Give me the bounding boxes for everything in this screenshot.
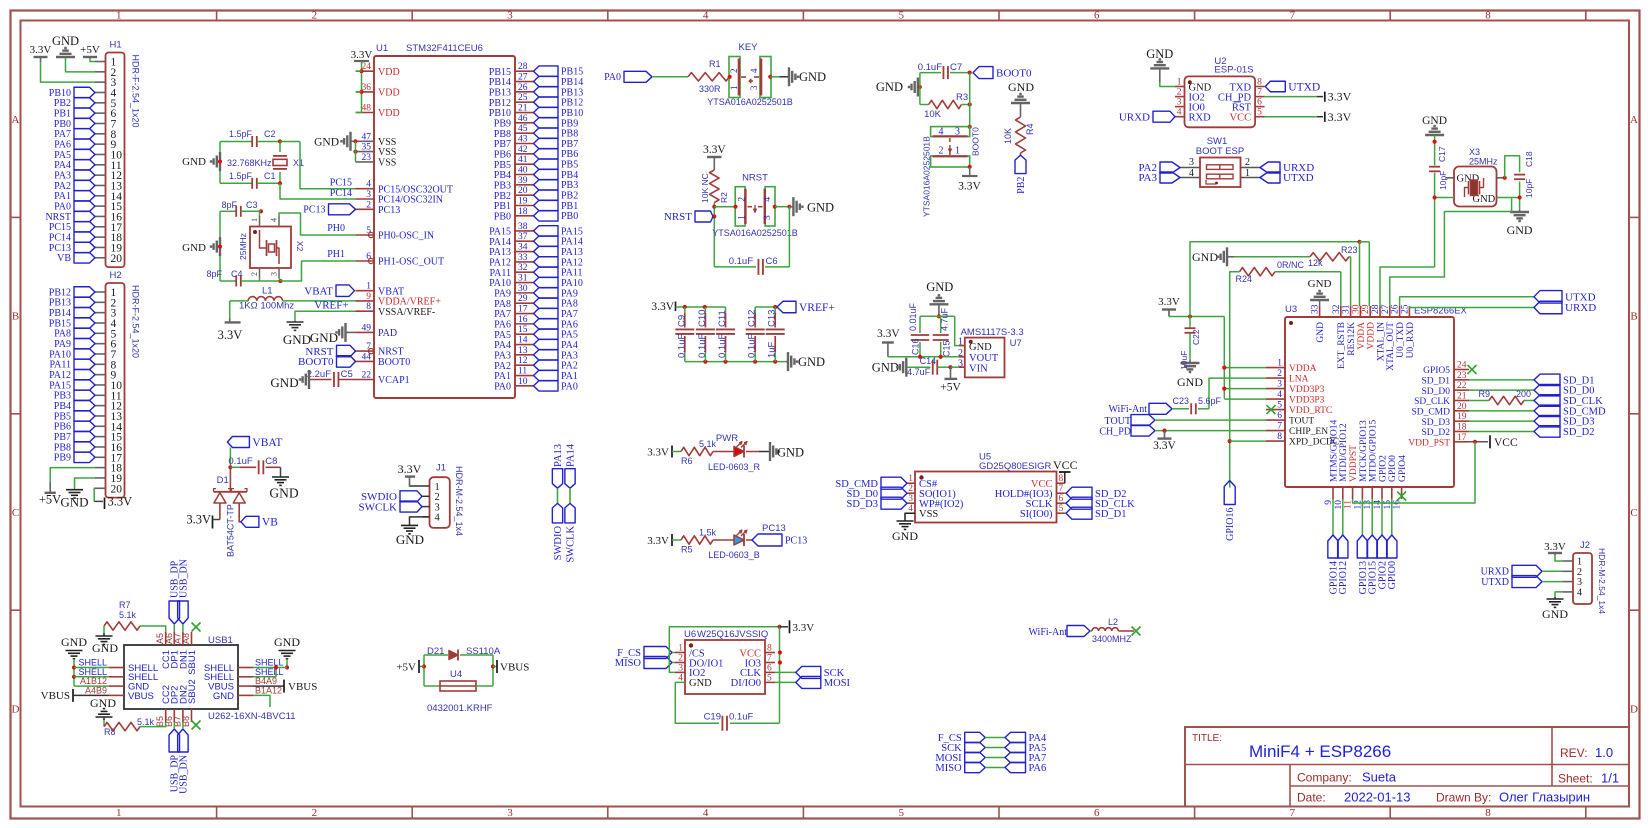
- svg-text:4.7uF: 4.7uF: [907, 367, 931, 377]
- svg-text:GND: GND: [52, 34, 79, 48]
- svg-text:GND: GND: [969, 342, 992, 353]
- svg-text:3: 3: [678, 663, 683, 673]
- svg-text:4: 4: [435, 513, 441, 524]
- svg-text:0.1uF: 0.1uF: [228, 456, 252, 467]
- svg-text:+5V: +5V: [39, 493, 61, 507]
- svg-text:4: 4: [763, 197, 773, 202]
- svg-text:PC13: PC13: [785, 535, 807, 546]
- svg-text:MISO: MISO: [935, 763, 962, 774]
- svg-text:6: 6: [1094, 807, 1100, 819]
- svg-text:25MHz: 25MHz: [238, 233, 248, 260]
- svg-text:BOOT ESP: BOOT ESP: [1196, 146, 1244, 157]
- svg-text:SD_CMD: SD_CMD: [1411, 407, 1450, 417]
- svg-text:3.3V: 3.3V: [958, 181, 981, 193]
- svg-text:C22: C22: [1191, 329, 1201, 345]
- svg-text:20: 20: [518, 186, 528, 196]
- svg-text:3: 3: [1277, 380, 1282, 390]
- svg-text:MTMS/GPIO14: MTMS/GPIO14: [1329, 419, 1339, 482]
- svg-text:0432001.KRHF: 0432001.KRHF: [427, 703, 493, 714]
- svg-text:29: 29: [518, 294, 528, 304]
- svg-text:VBUS: VBUS: [500, 662, 529, 674]
- svg-text:VCC: VCC: [1494, 437, 1518, 449]
- svg-text:5: 5: [1257, 108, 1262, 118]
- svg-text:PH0: PH0: [327, 223, 345, 234]
- svg-text:GPIO2: GPIO2: [1378, 455, 1388, 482]
- svg-text:GND: GND: [310, 330, 338, 345]
- svg-text:3.3V: 3.3V: [1153, 440, 1176, 452]
- svg-text:2: 2: [738, 197, 748, 202]
- svg-text:GND: GND: [60, 495, 88, 510]
- svg-text:U7: U7: [1010, 338, 1022, 349]
- svg-text:PA0: PA0: [494, 381, 511, 392]
- svg-text:C3: C3: [246, 200, 258, 210]
- svg-text:GND: GND: [1192, 250, 1218, 264]
- svg-text:12k: 12k: [1308, 258, 1323, 268]
- svg-text:D: D: [1630, 703, 1638, 715]
- svg-text:0.1uF: 0.1uF: [697, 334, 708, 358]
- svg-text:5: 5: [1277, 401, 1282, 411]
- svg-text:C7: C7: [950, 62, 962, 73]
- svg-text:32: 32: [518, 263, 528, 273]
- svg-text:VBUS: VBUS: [288, 681, 317, 693]
- svg-text:1: 1: [738, 215, 748, 220]
- svg-text:GND: GND: [892, 529, 918, 543]
- svg-text:GND: GND: [926, 280, 953, 294]
- svg-text:8pF: 8pF: [221, 200, 237, 210]
- svg-text:PH0-OSC_IN: PH0-OSC_IN: [378, 231, 434, 242]
- svg-text:VDDD: VDDD: [1367, 322, 1377, 350]
- svg-text:Date:: Date:: [1297, 791, 1326, 805]
- svg-text:1.5pF: 1.5pF: [229, 171, 253, 181]
- svg-text:17: 17: [518, 305, 528, 315]
- svg-text:2: 2: [250, 272, 259, 276]
- svg-text:10uF: 10uF: [1179, 351, 1189, 370]
- svg-text:0.1uF: 0.1uF: [747, 334, 758, 358]
- svg-text:NRST: NRST: [664, 211, 692, 223]
- svg-text:4: 4: [703, 807, 709, 819]
- svg-text:3.3V: 3.3V: [1328, 110, 1352, 124]
- svg-text:GND: GND: [182, 156, 206, 168]
- svg-text:C6: C6: [766, 256, 778, 267]
- svg-text:GND: GND: [1507, 223, 1533, 237]
- svg-text:30: 30: [1351, 304, 1361, 314]
- svg-text:C2: C2: [264, 129, 276, 139]
- svg-text:LED-0603_B: LED-0603_B: [708, 550, 760, 560]
- svg-text:GND: GND: [1308, 278, 1332, 290]
- svg-text:GND: GND: [1177, 375, 1203, 389]
- svg-text:R5: R5: [681, 545, 693, 555]
- svg-text:VB: VB: [57, 253, 71, 264]
- svg-text:U1: U1: [376, 43, 388, 54]
- svg-text:3.3V: 3.3V: [703, 144, 726, 156]
- svg-text:VBUS: VBUS: [41, 690, 70, 702]
- svg-text:GND: GND: [1316, 322, 1326, 343]
- svg-text:LNA: LNA: [1289, 375, 1309, 385]
- svg-text:3.3V: 3.3V: [1158, 296, 1180, 308]
- svg-text:11: 11: [518, 367, 527, 377]
- svg-text:3: 3: [1189, 157, 1194, 168]
- svg-text:MTDO/GPIO15: MTDO/GPIO15: [1369, 419, 1379, 482]
- svg-text:LED-0603_R: LED-0603_R: [708, 462, 761, 472]
- svg-text:42: 42: [518, 145, 528, 155]
- svg-text:4: 4: [1177, 108, 1182, 118]
- svg-text:3.3V: 3.3V: [877, 328, 900, 340]
- svg-text:CH_PD: CH_PD: [1099, 427, 1131, 438]
- svg-text:19: 19: [1457, 412, 1467, 422]
- svg-text:A: A: [1630, 114, 1638, 126]
- svg-text:6: 6: [1094, 10, 1100, 22]
- svg-text:U4: U4: [450, 669, 462, 680]
- svg-text:37: 37: [518, 232, 528, 242]
- svg-text:3: 3: [749, 85, 759, 90]
- svg-text:27: 27: [1381, 304, 1391, 314]
- svg-text:12: 12: [518, 356, 528, 366]
- svg-text:1: 1: [250, 218, 259, 222]
- svg-text:J1: J1: [436, 463, 446, 474]
- svg-text:25: 25: [1400, 304, 1410, 314]
- svg-text:VBUS: VBUS: [128, 691, 154, 702]
- svg-text:A: A: [12, 114, 20, 126]
- svg-text:GND: GND: [283, 332, 311, 347]
- svg-text:2: 2: [312, 10, 318, 22]
- svg-text:VSS: VSS: [378, 158, 396, 169]
- svg-text:1: 1: [908, 474, 913, 484]
- svg-text:U3: U3: [1285, 304, 1297, 315]
- svg-text:16: 16: [1393, 500, 1403, 510]
- svg-text:25: 25: [518, 93, 528, 103]
- svg-text:R6: R6: [681, 456, 693, 466]
- svg-text:TOUT: TOUT: [1289, 417, 1314, 427]
- svg-text:3.3V: 3.3V: [793, 622, 815, 634]
- svg-text:VSSA/VREF-: VSSA/VREF-: [378, 307, 435, 318]
- svg-text:10K: 10K: [924, 109, 942, 120]
- svg-text:MTCK/GPIO13: MTCK/GPIO13: [1359, 420, 1369, 482]
- svg-text:Drawn By:: Drawn By:: [1436, 791, 1491, 805]
- svg-text:DI/IO0: DI/IO0: [731, 678, 761, 689]
- svg-text:5.1k: 5.1k: [119, 610, 137, 620]
- svg-text:22: 22: [1457, 381, 1467, 391]
- svg-text:ESP-01S: ESP-01S: [1214, 65, 1253, 76]
- svg-text:2: 2: [366, 200, 371, 210]
- svg-text:31: 31: [1342, 304, 1352, 314]
- svg-text:MTDI/GPIO12: MTDI/GPIO12: [1339, 423, 1349, 482]
- svg-text:25MHz: 25MHz: [1469, 157, 1498, 167]
- svg-text:3.3V: 3.3V: [186, 513, 211, 527]
- svg-text:22: 22: [362, 371, 372, 381]
- svg-text:H1: H1: [110, 40, 122, 51]
- svg-text:AMS1117S-3.3: AMS1117S-3.3: [961, 327, 1024, 338]
- svg-text:VDD3P3: VDD3P3: [1289, 385, 1325, 395]
- svg-text:40: 40: [518, 166, 528, 176]
- svg-text:PC13: PC13: [303, 205, 325, 216]
- svg-text:BOOT0: BOOT0: [971, 127, 981, 156]
- svg-text:2022-01-13: 2022-01-13: [1344, 790, 1411, 805]
- svg-text:3400MHZ: 3400MHZ: [1092, 634, 1132, 644]
- svg-text:330R: 330R: [699, 84, 721, 94]
- svg-text:49: 49: [362, 323, 372, 333]
- svg-text:R4: R4: [1025, 123, 1035, 135]
- svg-text:34: 34: [518, 243, 528, 253]
- svg-text:2: 2: [939, 146, 944, 157]
- svg-text:VCC: VCC: [1053, 458, 1078, 472]
- svg-text:HDR-F-2.54_1x20: HDR-F-2.54_1x20: [131, 55, 141, 128]
- svg-text:L1: L1: [262, 286, 273, 297]
- svg-text:VCAP1: VCAP1: [378, 375, 410, 386]
- svg-text:18: 18: [1457, 422, 1467, 432]
- svg-text:29: 29: [1361, 304, 1371, 314]
- svg-text:XTAL_IN: XTAL_IN: [1376, 322, 1386, 361]
- svg-text:19: 19: [518, 196, 528, 206]
- svg-text:SD_D2: SD_D2: [1421, 428, 1450, 438]
- svg-text:10: 10: [518, 377, 528, 387]
- svg-text:C9: C9: [676, 315, 687, 327]
- svg-text:PB9: PB9: [54, 453, 71, 464]
- svg-text:VIN: VIN: [969, 364, 988, 375]
- svg-text:C23: C23: [1172, 396, 1189, 406]
- svg-text:10pF: 10pF: [1524, 179, 1534, 198]
- svg-text:STM32F411CEU6: STM32F411CEU6: [406, 43, 483, 54]
- svg-text:PC13: PC13: [378, 205, 400, 216]
- svg-text:A8: A8: [181, 633, 191, 644]
- svg-text:U6: U6: [684, 629, 696, 640]
- svg-text:5: 5: [767, 673, 772, 683]
- svg-text:CHIP_EN: CHIP_EN: [1289, 427, 1328, 437]
- svg-text:BAT54CT-TP: BAT54CT-TP: [226, 504, 236, 557]
- svg-text:2: 2: [1277, 369, 1282, 379]
- svg-text:2: 2: [729, 69, 739, 74]
- svg-text:23: 23: [362, 153, 372, 163]
- svg-text:3.3V: 3.3V: [351, 49, 373, 61]
- svg-text:32.768KHz: 32.768KHz: [227, 158, 272, 168]
- svg-text:C: C: [12, 507, 19, 519]
- svg-text:U262-16XN-4BVC11: U262-16XN-4BVC11: [208, 711, 295, 722]
- svg-text:GPIO16: GPIO16: [1225, 508, 1236, 541]
- svg-text:GND: GND: [799, 70, 826, 84]
- svg-text:GND: GND: [807, 201, 834, 215]
- svg-text:PWR: PWR: [716, 433, 738, 444]
- svg-text:VDD: VDD: [378, 108, 400, 119]
- svg-text:0.1uF: 0.1uF: [918, 62, 942, 73]
- svg-text:SD_D3: SD_D3: [1421, 418, 1450, 428]
- svg-text:GND: GND: [90, 696, 116, 710]
- svg-text:BOOT0: BOOT0: [378, 357, 410, 368]
- svg-text:D1: D1: [217, 475, 229, 486]
- svg-text:A4B9: A4B9: [85, 685, 107, 695]
- svg-text:C12: C12: [747, 310, 758, 327]
- svg-text:3: 3: [763, 215, 773, 220]
- svg-text:6: 6: [1257, 98, 1262, 108]
- svg-text:UTXD: UTXD: [1481, 577, 1509, 588]
- svg-text:PA6: PA6: [1029, 763, 1047, 774]
- svg-text:GND: GND: [269, 486, 298, 501]
- svg-text:4: 4: [1577, 588, 1582, 599]
- svg-text:BOOT0: BOOT0: [298, 356, 334, 368]
- svg-text:2: 2: [678, 654, 683, 664]
- svg-text:15: 15: [518, 325, 528, 335]
- svg-text:44: 44: [362, 352, 372, 362]
- svg-text:J2: J2: [1580, 540, 1590, 551]
- svg-text:B: B: [12, 311, 19, 323]
- svg-text:VDD_PST: VDD_PST: [1408, 438, 1450, 448]
- svg-text:1: 1: [1277, 359, 1282, 369]
- svg-text:0.01uF: 0.01uF: [908, 302, 918, 331]
- svg-text:7: 7: [767, 654, 772, 664]
- svg-text:PH1: PH1: [327, 249, 345, 260]
- svg-text:1: 1: [116, 807, 122, 819]
- svg-text:6: 6: [1059, 494, 1064, 504]
- svg-text:VBAT: VBAT: [252, 437, 282, 449]
- svg-text:GND: GND: [1008, 80, 1034, 94]
- svg-text:PB0: PB0: [561, 211, 578, 222]
- svg-text:3: 3: [507, 807, 513, 819]
- svg-text:SD_D1: SD_D1: [1095, 509, 1127, 520]
- svg-text:SD_D1: SD_D1: [1421, 376, 1450, 386]
- svg-text:R2: R2: [719, 192, 729, 203]
- svg-text:5: 5: [898, 807, 904, 819]
- svg-text:4.7uF: 4.7uF: [940, 307, 950, 331]
- svg-text:20: 20: [1457, 402, 1467, 412]
- svg-text:1KΩ 100Mhz: 1KΩ 100Mhz: [239, 301, 294, 312]
- svg-text:SBU2: SBU2: [187, 679, 198, 704]
- svg-text:MiniF4 + ESP8266: MiniF4 + ESP8266: [1249, 742, 1391, 761]
- svg-text:1: 1: [1245, 168, 1250, 179]
- svg-text:3.3V: 3.3V: [30, 44, 52, 56]
- svg-text:2: 2: [1245, 157, 1250, 168]
- svg-text:17: 17: [1457, 433, 1467, 443]
- svg-text:47: 47: [362, 132, 372, 142]
- svg-text:3: 3: [270, 272, 279, 276]
- svg-text:EXT_RSTB: EXT_RSTB: [1337, 322, 1347, 369]
- svg-text:48: 48: [362, 104, 372, 114]
- svg-text:REV:: REV:: [1560, 746, 1588, 760]
- svg-text:X3: X3: [1469, 147, 1480, 157]
- svg-text:L2: L2: [1108, 617, 1118, 627]
- svg-text:USB_DN: USB_DN: [178, 755, 189, 794]
- svg-text:4: 4: [1277, 390, 1282, 400]
- svg-text:GND: GND: [396, 532, 424, 547]
- svg-text:VREF+: VREF+: [314, 299, 348, 311]
- svg-text:YTSA016A0252501B: YTSA016A0252501B: [922, 136, 932, 217]
- svg-text:3.3V: 3.3V: [1544, 541, 1566, 553]
- svg-text:33: 33: [518, 253, 528, 263]
- svg-text:3.3V: 3.3V: [1328, 90, 1352, 104]
- svg-text:KEY: KEY: [738, 42, 758, 53]
- svg-text:BOOT0: BOOT0: [996, 67, 1032, 79]
- svg-text:GPIO0: GPIO0: [1388, 455, 1398, 482]
- svg-text:0.1uF: 0.1uF: [729, 712, 753, 723]
- svg-text:RES12K: RES12K: [1347, 322, 1357, 356]
- svg-text:C13: C13: [767, 310, 778, 327]
- svg-text:1: 1: [955, 146, 960, 157]
- svg-text:XTAL_OUT: XTAL_OUT: [1386, 322, 1396, 371]
- svg-text:14: 14: [518, 336, 528, 346]
- svg-text:0.1uF: 0.1uF: [676, 334, 687, 358]
- svg-text:3: 3: [507, 10, 513, 22]
- svg-text:VOUT: VOUT: [969, 353, 999, 364]
- svg-text:200: 200: [1516, 389, 1531, 399]
- svg-text:R3: R3: [956, 92, 968, 103]
- svg-text:Sheet:: Sheet:: [1558, 772, 1593, 786]
- svg-text:PC15: PC15: [330, 178, 352, 189]
- svg-text:VDD: VDD: [378, 88, 400, 99]
- svg-text:Company:: Company:: [1297, 771, 1352, 785]
- svg-text:MISO: MISO: [615, 658, 642, 669]
- svg-text:GND: GND: [274, 635, 300, 649]
- svg-text:GND: GND: [876, 80, 903, 94]
- svg-text:GND: GND: [798, 355, 825, 369]
- svg-text:B: B: [1630, 311, 1637, 323]
- svg-text:X1: X1: [293, 158, 304, 168]
- svg-text:GND: GND: [777, 446, 804, 460]
- svg-text:5.1k: 5.1k: [699, 439, 717, 449]
- svg-text:U0_TXD: U0_TXD: [1396, 322, 1406, 358]
- svg-text:SBU1: SBU1: [187, 650, 198, 675]
- svg-text:VDDA: VDDA: [1289, 364, 1317, 374]
- svg-text:UTXD: UTXD: [1283, 172, 1314, 184]
- svg-text:VBAT: VBAT: [304, 285, 333, 297]
- svg-text:8: 8: [1277, 432, 1282, 442]
- svg-text:UTXD: UTXD: [1288, 81, 1320, 93]
- svg-text:YTSA016A0252501B: YTSA016A0252501B: [712, 228, 798, 238]
- svg-text:32: 32: [1332, 304, 1342, 314]
- svg-text:3.3V: 3.3V: [651, 301, 674, 313]
- svg-text:C1: C1: [264, 171, 276, 181]
- svg-text:GND: GND: [92, 641, 118, 655]
- svg-text:1: 1: [1177, 78, 1182, 88]
- svg-text:8pF: 8pF: [206, 269, 222, 279]
- svg-text:3.3V: 3.3V: [647, 447, 669, 459]
- svg-text:27: 27: [518, 73, 528, 83]
- svg-text:SWCLK: SWCLK: [566, 525, 577, 562]
- svg-text:2: 2: [908, 484, 913, 494]
- svg-text:GND: GND: [872, 361, 899, 375]
- svg-text:SD_CLK: SD_CLK: [1414, 397, 1450, 407]
- svg-text:6: 6: [1277, 411, 1282, 421]
- svg-text:B1A12: B1A12: [255, 685, 282, 695]
- svg-text:SI(IO0): SI(IO0): [1020, 509, 1053, 520]
- svg-text:SWCLK: SWCLK: [359, 501, 398, 513]
- svg-text:C5: C5: [341, 369, 353, 380]
- svg-text:3: 3: [1177, 98, 1182, 108]
- svg-text:Sueta: Sueta: [1362, 770, 1397, 785]
- svg-text:U0_RXD: U0_RXD: [1406, 322, 1416, 359]
- svg-text:C14: C14: [920, 356, 937, 366]
- svg-text:GPIO0: GPIO0: [1387, 561, 1398, 589]
- svg-text:SD_CLK: SD_CLK: [1563, 396, 1603, 407]
- svg-text:2: 2: [312, 807, 318, 819]
- svg-text:PC13: PC13: [762, 523, 786, 534]
- svg-text:0.1uF: 0.1uF: [717, 334, 728, 358]
- svg-text:3: 3: [908, 494, 913, 504]
- svg-text:GND: GND: [270, 375, 298, 390]
- svg-text:VDD3P3: VDD3P3: [1289, 396, 1325, 406]
- svg-text:4: 4: [749, 68, 759, 73]
- svg-text:1: 1: [729, 86, 739, 91]
- svg-text:SD_D2: SD_D2: [1563, 427, 1595, 438]
- svg-text:5.1k: 5.1k: [137, 717, 155, 727]
- svg-text:C17: C17: [1437, 146, 1447, 162]
- svg-text:C15: C15: [942, 340, 952, 357]
- svg-text:2.2uF: 2.2uF: [307, 369, 331, 380]
- svg-text:TOUT: TOUT: [1105, 416, 1131, 427]
- svg-text:GPIO12: GPIO12: [1338, 561, 1349, 594]
- svg-text:5: 5: [898, 10, 904, 22]
- svg-text:PA0: PA0: [604, 72, 621, 83]
- svg-text:PA3: PA3: [1138, 172, 1157, 184]
- svg-text:5.6pF: 5.6pF: [1198, 396, 1222, 406]
- svg-text:13: 13: [518, 346, 528, 356]
- svg-text:+5V: +5V: [396, 662, 416, 674]
